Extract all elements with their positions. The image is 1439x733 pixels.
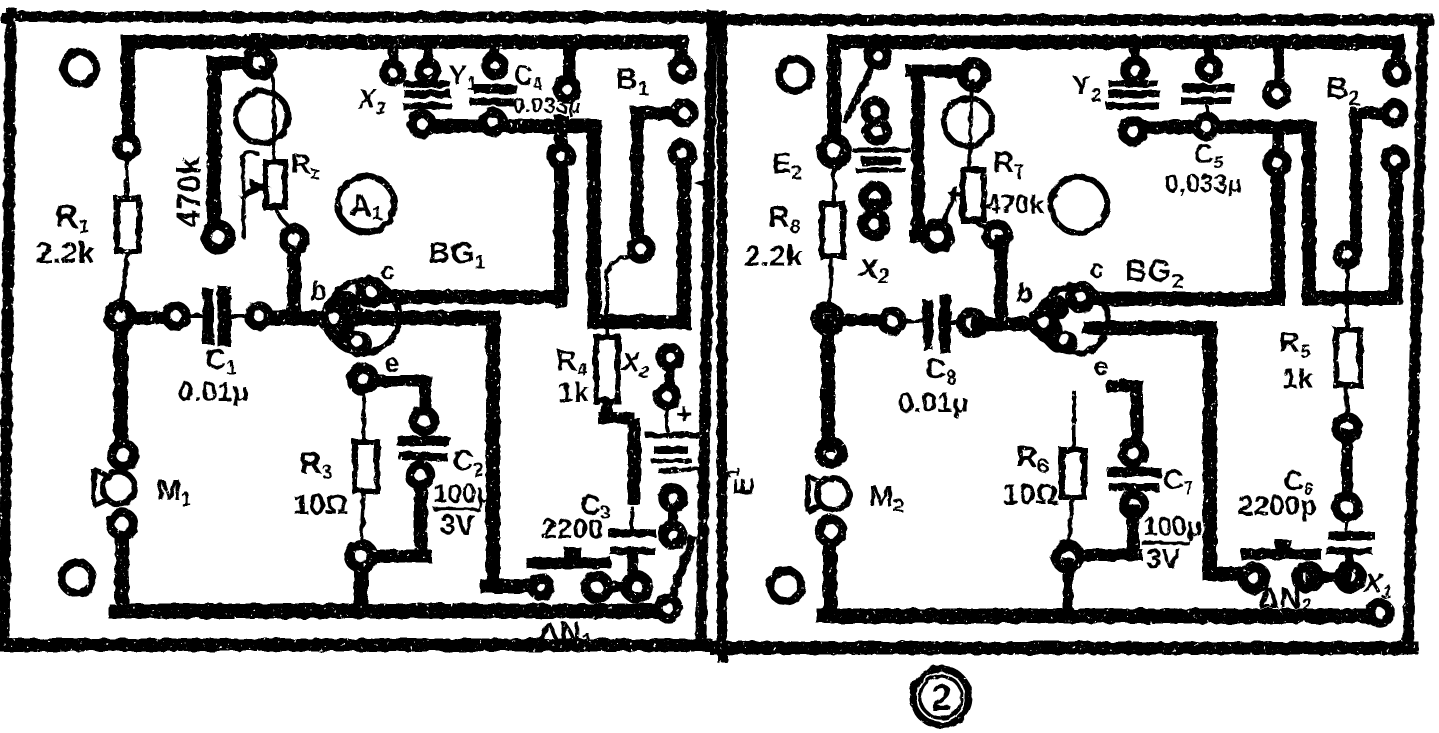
pad X2 chain 4 [863,213,885,235]
wire R2 wiper lead [243,152,257,237]
wire X2 lever diagonal [846,63,874,120]
wire bottom rail board2 [824,609,1376,624]
pad B2 top [1387,63,1407,83]
wire B2 middle branch [1356,113,1391,248]
pad X2 chain 1 [865,101,885,121]
pad C1 left [166,306,186,326]
svg-text:100μ: 100μ [1143,511,1202,541]
wire battery top chain vertical [628,425,641,498]
resistor R8 body [822,204,843,256]
wire R7 top lead [969,80,972,170]
wire lower bus under Y1 C4 [422,126,684,322]
svg-text:2.2k: 2.2k [36,237,95,270]
svg-text:10Ω: 10Ω [293,489,349,521]
pad R5 bottom [1336,417,1358,439]
pad collector riser board2 [1267,153,1287,173]
svg-text:0.01μ: 0.01μ [898,387,968,418]
wire M2 chain down to bottom rail [823,536,837,610]
wire C6 lead [1345,513,1349,530]
wire R2 bottom lead [276,207,293,232]
pad X2 chain 2 [867,121,887,141]
pad C2 top [414,411,435,432]
figure number circle outer [913,669,969,725]
wire node b horizontal board2 [830,314,888,326]
pad R2 loop bottom-left [206,225,230,249]
battery E contact bar 2 [866,157,896,166]
wire X2 lever diagonal [670,540,692,604]
wire emitter bus vertical down to AH1 pad [487,324,530,586]
pad M1 bottom [111,513,134,536]
pad R5 top [1337,245,1357,265]
wire bottom rail board1 [116,604,662,619]
wire R1 top lead [125,152,129,199]
figure number circle inner [920,676,962,718]
wire M1 bottom to board bottom rail [115,529,129,608]
svg-text:C5: C5 [1193,138,1224,174]
pad R2 wiper bottom [283,228,305,250]
svg-text:M1: M1 [157,475,192,511]
wire R7 bottom to node b riser [995,241,1008,318]
resistor R7 body [963,170,984,220]
wire X2 chain link [871,203,880,218]
pad BG2 collector [1071,287,1092,308]
svg-text:BG1: BG1 [428,235,486,274]
wire battery bottom link [668,503,678,532]
svg-text:R3: R3 [300,447,333,484]
svg-text:0.01μ: 0.01μ [178,376,248,407]
svg-text:R4: R4 [556,345,588,381]
switch AH1 bar [532,558,606,569]
pad Y1 bottom [412,114,432,134]
capacitor C3 plate lower [614,547,651,555]
svg-text:100μ: 100μ [433,478,492,508]
svg-text:Y2: Y2 [1072,70,1101,106]
board 1 border right [701,15,712,640]
pad BG2 base [1033,311,1055,333]
svg-text:+: + [676,398,692,429]
transistor BG1 inner blob [325,291,372,357]
svg-text:C7: C7 [1163,464,1193,498]
svg-text:C8: C8 [925,354,957,389]
wire R2 top lead [261,67,274,163]
board 2 border bottom [716,642,1412,655]
capacitor C5 plate upper [1187,84,1230,93]
capacitor C7 plate lower [1113,483,1155,491]
capacitor C4 plate upper [478,85,512,94]
pad R2 loop top [247,51,271,75]
board 2 border left [717,16,727,658]
resistor R3 body [355,442,377,491]
svg-text:c: c [1089,253,1103,283]
pad C7 bottom [1124,495,1145,516]
wire C8 leads [901,321,962,323]
pad Y1 top [419,62,437,80]
wire node b horizontal trace [122,312,176,325]
svg-text:X1: X1 [1362,568,1392,602]
pad AN2 right [1339,566,1361,588]
wire C7 bottom to junction trace [1072,510,1137,555]
transistor BG2 outline [1040,286,1108,354]
mounting hole board2 top-left [779,59,811,91]
wire collector trace BG1 [375,122,561,300]
pad X2 upper [661,348,680,367]
pad collector riser [552,147,571,166]
svg-text:c: c [380,255,394,285]
pad C8 right [961,312,983,334]
pad B1 top [672,59,692,79]
wire R4 elbow to battery chain pad [604,390,628,418]
battery E contact bar 3 [858,168,903,173]
wire node b trace through BG1 to emitter bus [261,311,493,326]
pad C8 left [882,311,902,331]
pad AN2 left [1297,566,1319,588]
pad AH1 right [626,576,648,598]
transistor BG1 outline [327,281,399,353]
resistor R4 body [596,337,618,401]
wire collector trace BG2 [1084,168,1278,299]
pad battery chain lower [663,525,683,545]
battery B1 contact bar 2 [658,446,684,454]
crystal Y2 plate 2 [1112,90,1156,98]
pad M2 bottom [820,520,843,543]
wire top bus trace board1 [128,42,681,148]
wire AH1 pads bridge [600,582,634,593]
microphone M1 ring [103,472,135,504]
battery B1 contact bar 4 [661,469,697,471]
pad C5 bottom [1196,116,1216,136]
svg-text:1k: 1k [1282,363,1314,394]
pad R4 top node [631,239,651,259]
wire X2 pad to battery plus lead [665,401,669,430]
wire C5 bottom bus [1133,127,1309,298]
wire AN2 pads bridge [1311,572,1346,583]
crystal Y1 plate 2 [408,90,447,98]
wire C3 lead stub [630,508,634,528]
wire C3 bottom stub to pad [628,556,639,578]
pad right bus end [1243,567,1265,589]
battery B1 contact bar 1 [648,432,696,438]
svg-text:2200: 2200 [541,513,603,544]
wire emitter pad to C2 top [366,381,425,414]
svg-text:b: b [310,276,327,306]
pad emitter bus end [532,578,550,596]
svg-text:Y1: Y1 [448,59,478,95]
pad X1 board2 [1370,603,1390,623]
wire stub to Y2 top pad [1130,46,1140,62]
pad R7 bottom [986,224,1008,246]
capacitor C2 plate lower [403,456,444,457]
mounting hole board2 bottom-left [771,571,802,602]
wire C5 lead [1205,107,1209,116]
wire R3 top lead [362,390,366,442]
svg-text:e: e [385,348,399,378]
svg-text:C4: C4 [514,60,543,93]
svg-text:10Ω: 10Ω [1003,479,1059,511]
svg-text:A1: A1 [350,190,383,225]
wire B1 middle branch to R4 [637,113,681,244]
board 1 border top [6,12,710,23]
wire stub to C5 top pad [1204,46,1214,62]
pad X2 lower [658,387,677,406]
resistor R2 body [266,162,285,207]
resistor R1 body [117,199,139,251]
svg-text:C1: C1 [205,344,237,379]
svg-text:E1: E1 [723,467,759,496]
capacitor C4 plate lower [474,98,510,106]
svg-text:3V: 3V [440,509,475,540]
arrow mark on board1 right border [694,176,712,191]
wire R1 bottom lead [121,251,128,311]
capacitor C6 plate lower [1329,548,1369,555]
wire R6 top lead [1072,392,1076,450]
wire junction down to bottom rail board2 [1063,563,1073,610]
svg-text:R8: R8 [768,201,801,238]
crystal Y1 plate 3 [406,103,448,110]
wire C6 bottom stub [1345,556,1354,572]
svg-text:470k: 470k [986,189,1044,219]
mounting hole board1 top-left [64,52,96,84]
trimmer R7 disc [944,98,992,146]
capacitor C1 plate left [203,294,214,339]
mounting hole board1 bottom-left [62,563,93,594]
pad B1 middle [674,103,694,123]
crystal Y1 plate 1 [407,81,446,88]
wire stub to Y1 top pad [423,45,433,64]
capacitor C2 plate upper [402,436,445,446]
pad B2 chain lower [1385,150,1405,170]
switch AH1 button [564,547,581,558]
pad E2 [822,139,847,164]
svg-text:Rz: Rz [291,149,320,183]
hole big circle board2 [1051,177,1107,233]
wire R7 bottom lead [975,220,995,230]
capacitor C8 plate right [939,301,951,347]
board 1 border bottom [2,639,706,652]
pad Y2 top [1125,60,1145,80]
wire U bar under R5 [1309,166,1396,298]
capacitor C1 plate right [218,292,231,340]
svg-text:2.2k: 2.2k [744,240,803,273]
svg-text:e: e [1094,351,1108,381]
pad bottom rail right end [658,598,678,618]
pad R7 wiper bottom [925,224,949,248]
svg-text:R5: R5 [1279,327,1311,363]
pad C1 right [249,306,269,326]
svg-text:2200p: 2200p [1238,490,1317,521]
svg-text:X2: X2 [620,347,649,381]
microphone M1 ticks [94,470,106,505]
pad AH1 left [586,576,608,598]
wire C1 leads [186,314,250,318]
resistor R5 body [1336,330,1360,385]
pad B2 middle [1384,103,1404,123]
microphone M2 ticks [808,477,820,511]
wire BG2 emitter trace [1112,386,1137,448]
capacitor C3 plate upper [612,529,652,537]
switch AN2 button [1275,539,1291,550]
label C2 value underline [435,507,478,511]
wire C2 bottom to R3 junction trace [364,480,425,556]
svg-text:3V: 3V [1146,543,1181,574]
svg-text:0.033μ: 0.033μ [513,93,580,118]
pad C4 bottom [483,112,503,132]
wire node b junction to M2 [821,325,835,446]
svg-text:BG2: BG2 [1125,253,1183,293]
board 2 border right [1408,21,1423,647]
pad C4 top [486,57,504,75]
pad node b junction left [109,305,132,328]
wire node b trace to BG2 [978,317,1048,331]
svg-text:b: b [1016,278,1033,308]
wire BG2 right bus [1090,328,1243,574]
pad B1 lower [672,143,692,163]
svg-text:R7: R7 [993,147,1025,183]
pad BG1 emitter [352,368,374,390]
pad node right of C4 [558,80,577,99]
wire R8 bottom lead [829,256,832,311]
svg-text:B2: B2 [1326,70,1360,110]
pad R6 C7 junction [1057,546,1080,569]
wire X2 chain link [665,362,675,392]
wire R3 bottom lead [361,491,364,545]
switch AN2 bar [1246,549,1316,560]
wire R7 loop top bar [912,71,966,230]
svg-text:2: 2 [931,677,952,718]
capacitor C7 plate upper [1112,467,1156,477]
pad C2 bottom [410,465,431,486]
pad battery chain upper [663,488,683,508]
pad node b junction board2 [817,308,840,331]
pad Y2 bottom [1123,121,1144,142]
crystal Y2 plate 3 [1110,103,1156,110]
svg-text:B1: B1 [616,63,649,100]
svg-text:C2: C2 [452,445,484,481]
svg-text:1k: 1k [558,377,590,408]
wire R6 bottom lead [1068,497,1073,546]
svg-text:R6: R6 [1016,441,1049,478]
pad X2 chain 3 [864,186,886,208]
capacitor C6 plate upper [1332,532,1371,540]
pad M2 top [820,442,842,464]
battery E contact bar 1 [855,148,908,153]
pad X2 lever [869,47,888,66]
svg-text:X1: X1 [356,84,386,118]
wire R2 wiper arrow [240,181,267,197]
wire stub to C4 top pad [491,45,500,60]
wire R5 to C6 [1342,434,1353,500]
wire stub to pad X1 [388,45,398,66]
pad X1 jack [384,64,402,82]
pad C5 top [1200,59,1219,78]
microphone M2 ring [817,478,849,510]
pad M1 top [112,444,135,467]
pad BG1 collector [361,282,382,303]
trimmer R2 disc [236,91,288,143]
resistor R6 body [1062,450,1084,497]
svg-text:470k: 470k [171,157,207,228]
wire stub to R2 loop top pad [252,43,271,55]
capacitor C5 plate lower [1185,97,1228,105]
wire R2 bottom pad to node b riser [287,246,301,316]
wire R7 loop bottom bar [915,230,928,242]
svg-text:M2: M2 [869,481,904,517]
meter A1 circle [338,176,394,232]
wire stub to node pad right of C4 [563,45,575,82]
board 2 border top [718,15,1428,26]
capacitor C8 plate left [923,305,933,345]
pad collector stub board2 [1267,84,1287,104]
pad BG1 base [323,307,345,329]
svg-text:R1: R1 [55,198,90,238]
wire collector riser stub up [1273,128,1284,152]
transistor BG2 inner blob [1035,295,1097,380]
svg-text:ΔN1: ΔN1 [538,617,592,652]
battery B1 contact bar 3 [653,459,690,463]
pad node top-left corner [117,137,137,157]
pad R3 C2 junction [350,545,373,568]
label C7 value underline [1143,541,1188,545]
wire R7 wiper lead [941,198,953,228]
wire R3 junction down to bottom rail [354,561,368,606]
svg-text:0,033μ: 0,033μ [1165,170,1242,198]
svg-text:E2: E2 [772,148,802,184]
pad C6 top [1336,496,1358,518]
wire R4 top lead [607,255,641,337]
wire R8 top lead [832,159,836,204]
wire R5 top lead [1345,261,1349,330]
wire R7 wiper arrow [947,186,963,203]
crystal Y2 plate 1 [1112,81,1155,88]
wire left rail junction down to M1 [114,322,128,450]
wire L-trace of R2 loop [214,63,252,230]
board 1 border left [4,13,11,644]
pad R7 loop top [962,63,986,87]
pad C7 top [1123,443,1144,464]
wire stub to collector riser pad [1274,46,1285,85]
svg-text:x2: x2 [858,248,890,288]
wire top bus trace board2 [834,42,1398,146]
wire R5 bottom lead [1345,385,1348,422]
